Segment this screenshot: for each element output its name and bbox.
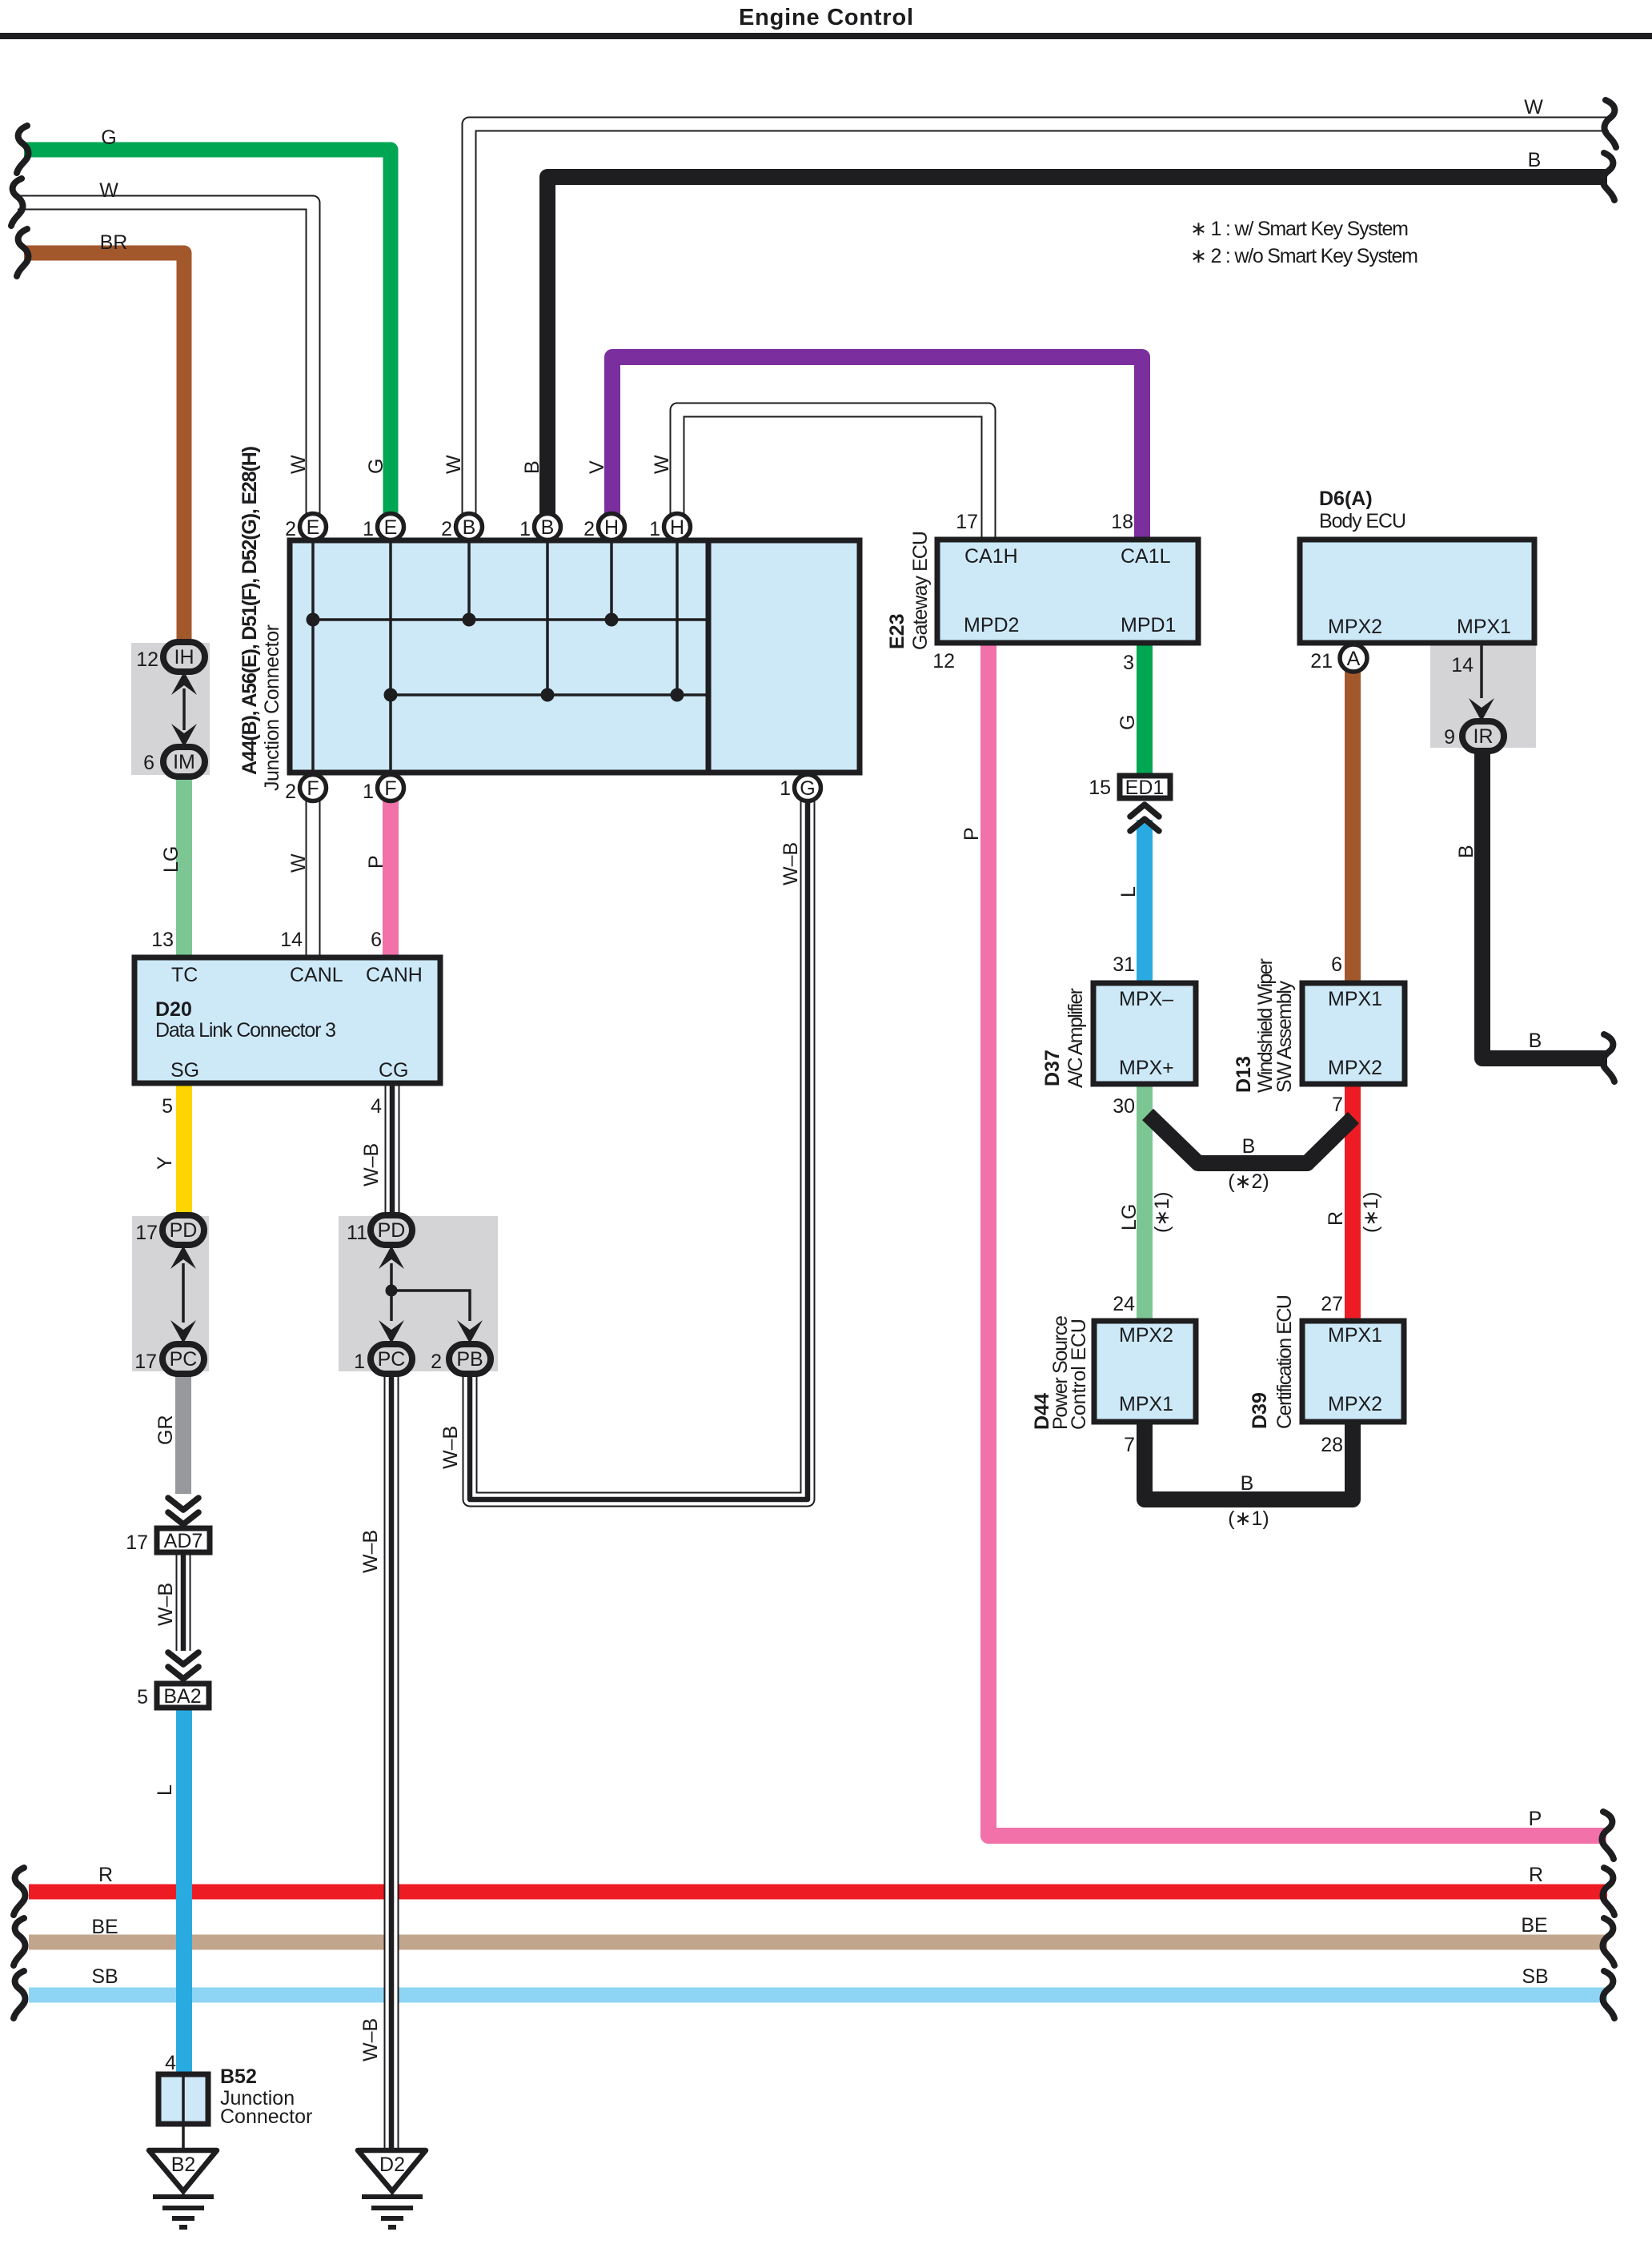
svg-text:R: R [1529, 1864, 1543, 1886]
B52 to ground lead [182, 2124, 185, 2154]
svg-text:W: W [443, 455, 465, 474]
svg-text:(∗1): (∗1) [1228, 1507, 1269, 1530]
svg-text:14: 14 [1451, 654, 1474, 676]
svg-text:W: W [287, 853, 310, 873]
svg-text:IM: IM [173, 751, 195, 773]
junction node dots [307, 613, 684, 702]
svg-text:3: 3 [1123, 652, 1134, 674]
svg-text:Y: Y [154, 1156, 176, 1170]
D6 pin names [1328, 616, 1511, 638]
svg-text:17: 17 [956, 511, 978, 533]
svg-text:2: 2 [285, 781, 296, 803]
svg-text:SB: SB [91, 1965, 118, 1988]
svg-text:B2: B2 [171, 2154, 196, 2176]
svg-text:12: 12 [932, 650, 955, 672]
svg-text:15: 15 [1089, 777, 1111, 799]
svg-text:1: 1 [519, 518, 531, 540]
svg-text:F: F [307, 777, 319, 800]
connector AD7 [157, 1528, 210, 1552]
grey highlight IR [1430, 645, 1536, 748]
connector oval IR [1462, 721, 1504, 751]
svg-text:W–B: W–B [780, 842, 802, 885]
svg-text:4: 4 [371, 1095, 382, 1118]
grey highlight IH/IM [131, 643, 210, 775]
connector oval PD left [162, 1215, 204, 1245]
svg-text:AD7: AD7 [164, 1530, 203, 1552]
D13 Windshield Wiper SW Assembly box [1302, 983, 1405, 1084]
pin circle 1G [795, 775, 821, 801]
svg-text:W: W [99, 179, 118, 202]
svg-text:30: 30 [1113, 1095, 1135, 1118]
svg-text:B52: B52 [220, 2065, 257, 2088]
junction internal wire 2H [610, 540, 613, 620]
svg-text:28: 28 [1321, 1434, 1343, 1456]
pin circle 1E [378, 514, 404, 540]
wire D6 MPX1 14 lead to IR [1480, 641, 1483, 698]
svg-text:9: 9 [1444, 726, 1455, 749]
ground B2 [149, 2150, 217, 2227]
B52 junction connector box [158, 2074, 208, 2124]
pin circle 1H [664, 514, 691, 540]
break W left [11, 179, 22, 226]
svg-text:R: R [98, 1864, 113, 1886]
svg-text:1: 1 [363, 518, 374, 540]
svg-text:LG: LG [1118, 1204, 1141, 1230]
svg-text:MPX1: MPX1 [1328, 1324, 1382, 1347]
pin circle 2H [599, 514, 625, 540]
svg-text:MPX–: MPX– [1119, 988, 1173, 1010]
wire W white junction 2F to D20 CANL 14 [306, 788, 321, 960]
svg-text:W–B: W–B [359, 2018, 382, 2061]
svg-text:5: 5 [137, 1686, 148, 1708]
ground D2 [358, 2150, 426, 2227]
junction internal wire 1E-1F [389, 540, 392, 773]
wire W white from left edge to junction 2E [18, 203, 313, 527]
svg-text:F: F [384, 777, 396, 800]
svg-text:MPX2: MPX2 [1328, 1393, 1382, 1415]
svg-text:ED1: ED1 [1125, 777, 1165, 799]
junction internal wire 1H [676, 540, 679, 695]
svg-text:MPX+: MPX+ [1119, 1057, 1174, 1079]
wire L blue ED1 to D37 MPX- pin 31 [1137, 820, 1153, 985]
break BE left [14, 1918, 25, 1965]
wire G green from left edge to junction 1E [24, 150, 391, 527]
wire P pink E23 MPD2 to right edge [988, 641, 1606, 1836]
svg-text:W–B: W–B [360, 1143, 383, 1186]
svg-text:V: V [586, 460, 608, 474]
svg-text:MPX2: MPX2 [1119, 1324, 1173, 1347]
svg-text:D13: D13 [1233, 1056, 1255, 1093]
pin circle A on D6 [1340, 644, 1367, 672]
arrow D6 MPX1 to IR [1469, 698, 1494, 721]
svg-text:2: 2 [431, 1351, 442, 1373]
svg-text:A44(B), A56(E), D51(F), D52(G): A44(B), A56(E), D51(F), D52(G), E28(H) [239, 446, 261, 775]
E23 pin names [964, 545, 1176, 636]
D37 pin names [1119, 988, 1174, 1079]
svg-text:B: B [1241, 1472, 1254, 1495]
chevrons to ED1 [1130, 805, 1159, 831]
svg-text:BE: BE [1521, 1914, 1547, 1937]
svg-text:D20: D20 [155, 998, 192, 1021]
E23 Gateway ECU box [937, 540, 1198, 643]
svg-text:MPD2: MPD2 [964, 614, 1019, 636]
svg-text:W–B: W–B [359, 1530, 382, 1573]
svg-text:(∗2): (∗2) [1228, 1170, 1269, 1193]
junction internal wire 2B [467, 540, 471, 620]
svg-text:B: B [521, 460, 543, 474]
svg-text:1: 1 [649, 518, 660, 540]
svg-text:G: G [365, 459, 387, 474]
svg-text:2: 2 [285, 518, 296, 540]
svg-text:B: B [1528, 149, 1542, 171]
break BE right [1603, 1918, 1614, 1965]
wire LG light green IM 6 to D20 TC 13 [176, 773, 192, 960]
svg-text:Data Link Connector 3: Data Link Connector 3 [155, 1019, 336, 1042]
pin circle 1F [378, 775, 404, 801]
D44 pin names [1119, 1324, 1173, 1415]
svg-text:CG: CG [379, 1059, 409, 1082]
wire W white junction 2B to right edge [469, 124, 1609, 527]
wire P pink junction 1F to D20 CANH 6 [383, 788, 399, 960]
D39 Certification ECU box [1302, 1321, 1404, 1422]
wire GR grey PC 17 to AD7 [175, 1372, 191, 1494]
svg-text:G: G [800, 777, 815, 800]
break R right [1603, 1868, 1614, 1915]
svg-text:D37: D37 [1041, 1050, 1064, 1086]
svg-text:MPX1: MPX1 [1457, 616, 1511, 638]
wire R red bus [29, 1885, 1607, 1900]
svg-text:P: P [365, 855, 387, 869]
svg-text:G: G [1117, 715, 1139, 730]
svg-text:D39: D39 [1249, 1392, 1271, 1429]
svg-text:P: P [1529, 1808, 1542, 1830]
svg-text:W: W [651, 455, 673, 474]
svg-text:2: 2 [441, 518, 452, 540]
wire V violet junction 2H to E23 CA1L pin 18 [612, 357, 1142, 540]
svg-text:BA2: BA2 [163, 1685, 201, 1708]
svg-text:Certification ECU: Certification ECU [1273, 1295, 1296, 1429]
svg-text:B: B [463, 516, 476, 539]
pin circle 2E [300, 514, 327, 540]
break G left [17, 126, 28, 173]
wire Y yellow D20 SG 5 to PD 17 [176, 1081, 192, 1217]
svg-text:W–B: W–B [154, 1583, 177, 1626]
break B IR right [1603, 1034, 1614, 1082]
svg-text:Junction Connector: Junction Connector [261, 624, 283, 791]
svg-text:H: H [604, 516, 619, 539]
svg-text:LG: LG [160, 846, 182, 873]
svg-text:21: 21 [1310, 650, 1333, 672]
break W right [1605, 100, 1616, 147]
D13 pin names [1328, 988, 1382, 1079]
svg-text:1: 1 [354, 1351, 365, 1373]
svg-text:(∗1): (∗1) [1360, 1191, 1382, 1233]
svg-text:PC: PC [170, 1348, 198, 1371]
svg-text:SB: SB [1522, 1965, 1548, 1988]
svg-text:TC: TC [171, 964, 198, 986]
svg-text:∗ 2 : w/o Smart Key System: ∗ 2 : w/o Smart Key System [1190, 245, 1418, 267]
svg-text:MPX1: MPX1 [1119, 1393, 1173, 1415]
svg-text:B: B [1455, 845, 1478, 858]
chevrons to AD7 [168, 1498, 198, 1524]
svg-text:PB: PB [456, 1348, 483, 1371]
svg-text:D6(A): D6(A) [1319, 488, 1373, 510]
svg-text:Engine Control: Engine Control [739, 5, 913, 30]
svg-text:MPX1: MPX1 [1328, 988, 1382, 1010]
svg-text:CA1H: CA1H [964, 545, 1018, 568]
wire labels horizontal [91, 96, 1548, 1988]
svg-text:SW Assembly: SW Assembly [1273, 981, 1296, 1094]
wire W-B PB 2 to junction 1G [470, 788, 808, 1499]
svg-text:L: L [1117, 886, 1140, 897]
wire B black junction 1B to right edge [547, 177, 1607, 527]
wire BE beige bus [29, 1935, 1607, 1950]
svg-text:Connector: Connector [220, 2105, 312, 2128]
wire B black IR 9 to right edge [1482, 751, 1607, 1058]
svg-text:A/C Amplifier: A/C Amplifier [1065, 988, 1087, 1088]
connector oval IH [163, 642, 205, 672]
svg-text:CANL: CANL [290, 964, 343, 986]
svg-text:D2: D2 [379, 2154, 405, 2176]
wire B black (*2) D37 30 to D13 7 [1148, 1114, 1353, 1163]
junction internal wire 2E-2F [311, 540, 315, 773]
break B right [1603, 153, 1614, 200]
svg-text:4: 4 [165, 2052, 176, 2074]
svg-text:GR: GR [154, 1415, 177, 1446]
wire SB sky blue bus [29, 1988, 1607, 2003]
svg-text:A: A [1347, 648, 1361, 670]
pin circle 2B [456, 514, 483, 540]
svg-text:7: 7 [1332, 1094, 1343, 1116]
break SB right [1603, 1971, 1614, 2018]
pin circle 1B [535, 514, 561, 540]
wire LG light green D37 MPX+ 30 to D44 MPX2 24 [1137, 1082, 1153, 1323]
svg-text:E: E [384, 516, 398, 539]
wire W-B D20 CG 4 to PD 11 [385, 1083, 400, 1217]
arrow pair IH-IM [182, 688, 186, 730]
svg-text:31: 31 [1113, 953, 1135, 976]
connector oval PC left [162, 1344, 204, 1374]
svg-text:6: 6 [371, 929, 382, 951]
svg-text:14: 14 [280, 929, 303, 951]
svg-text:PD: PD [170, 1219, 198, 1242]
svg-text:24: 24 [1113, 1293, 1135, 1315]
grey highlight PD/PC/PB right [339, 1216, 498, 1371]
svg-text:2: 2 [583, 518, 595, 540]
svg-text:MPX2: MPX2 [1328, 1057, 1382, 1079]
svg-text:MPD1: MPD1 [1121, 614, 1176, 636]
svg-text:W: W [287, 455, 310, 474]
svg-text:IR: IR [1474, 725, 1494, 748]
junction connector divider [706, 540, 712, 773]
svg-text:MPX2: MPX2 [1328, 616, 1382, 638]
wire W-B AD7 17 to BA2 5 [176, 1553, 191, 1651]
connector BA2 [157, 1684, 209, 1708]
B52 divider [182, 2075, 185, 2123]
svg-text:6: 6 [143, 752, 154, 774]
svg-text:CA1L: CA1L [1121, 545, 1171, 568]
svg-text:W–B: W–B [439, 1426, 462, 1469]
break P right [1602, 1812, 1614, 1859]
break BR left [17, 229, 28, 276]
svg-text:BR: BR [100, 231, 128, 254]
svg-text:11: 11 [347, 1222, 367, 1244]
svg-text:PD: PD [378, 1219, 406, 1242]
svg-text:13: 13 [151, 929, 174, 951]
wire BR brown from left edge to IH [24, 253, 184, 650]
svg-text:12: 12 [136, 648, 158, 671]
svg-text:CANH: CANH [366, 964, 423, 986]
svg-text:B: B [1242, 1135, 1256, 1158]
svg-text:∗ 1 : w/ Smart Key System: ∗ 1 : w/ Smart Key System [1190, 218, 1409, 240]
svg-text:E23: E23 [886, 614, 908, 649]
wire R red D13 MPX2 7 to D39 MPX1 27 [1345, 1082, 1361, 1323]
connector oval PC right [371, 1344, 412, 1374]
connector ED1 [1120, 776, 1170, 799]
connector oval PB [449, 1344, 491, 1374]
junction connector A44/A56/D51/D52/E28 box [290, 540, 860, 773]
svg-text:BE: BE [91, 1916, 118, 1938]
svg-text:6: 6 [1331, 953, 1342, 976]
wire L blue BA2 5 to B52 4 [176, 1708, 192, 2076]
svg-text:7: 7 [1124, 1434, 1135, 1456]
svg-text:SG: SG [170, 1059, 199, 1082]
D20 labels [170, 964, 423, 1082]
wire W white junction 1H to E23 CA1H pin 17 [677, 410, 988, 540]
arrow pair PD-PC left [182, 1263, 185, 1323]
pin circle 2F [300, 775, 327, 801]
wire B black (*1) D44 MPX1 7 to D39 MPX2 28 [1145, 1420, 1353, 1499]
connector oval IM [163, 747, 205, 777]
svg-text:17: 17 [126, 1531, 148, 1554]
svg-text:W: W [1524, 96, 1543, 118]
svg-text:18: 18 [1111, 511, 1133, 533]
D6(A) Body ECU box [1300, 540, 1534, 643]
svg-text:5: 5 [162, 1095, 173, 1118]
svg-text:17: 17 [135, 1222, 158, 1244]
wire labels rotated [154, 455, 1478, 2061]
svg-text:B: B [541, 516, 555, 539]
svg-text:R: R [1325, 1211, 1347, 1226]
svg-text:H: H [670, 516, 684, 539]
svg-text:1: 1 [363, 781, 374, 803]
wire G green E23 MPD1 to ED1 [1137, 641, 1153, 775]
D44 Power Source Control ECU box [1094, 1321, 1196, 1422]
grey highlight PD/PC left [132, 1216, 209, 1371]
svg-text:(∗1): (∗1) [1151, 1191, 1173, 1233]
junction internal wire 1B [546, 540, 549, 695]
svg-text:P: P [960, 827, 983, 841]
svg-text:E: E [307, 516, 320, 539]
svg-text:Gateway ECU: Gateway ECU [909, 531, 932, 650]
chevrons to BA2 [168, 1652, 198, 1679]
wire BR brown D6 A 21 to D13 MPX1 6 [1345, 658, 1361, 985]
D20 Data Link Connector 3 box [134, 957, 440, 1083]
arrow tree PD-PC/PB right [391, 1263, 470, 1321]
break R left [14, 1868, 25, 1915]
svg-text:27: 27 [1321, 1293, 1343, 1315]
junction internal bus 1 [313, 618, 708, 621]
break SB left [14, 1971, 25, 2018]
svg-text:Body ECU: Body ECU [1319, 510, 1406, 532]
svg-text:Control ECU: Control ECU [1068, 1319, 1090, 1430]
top rule [0, 33, 1652, 39]
svg-text:B: B [1529, 1030, 1542, 1052]
svg-text:G: G [101, 126, 116, 149]
svg-text:1: 1 [780, 777, 791, 800]
D37 A/C Amplifier box [1093, 983, 1196, 1084]
connector oval PD right [371, 1215, 412, 1245]
D39 pin names [1328, 1324, 1382, 1415]
svg-text:L: L [154, 1784, 176, 1796]
junction internal bus 2 [391, 693, 708, 696]
wire W-B PC 1 to ground D2 [384, 1372, 399, 2152]
svg-text:PC: PC [378, 1348, 406, 1371]
svg-text:17: 17 [134, 1351, 157, 1373]
svg-text:IH: IH [174, 646, 194, 668]
